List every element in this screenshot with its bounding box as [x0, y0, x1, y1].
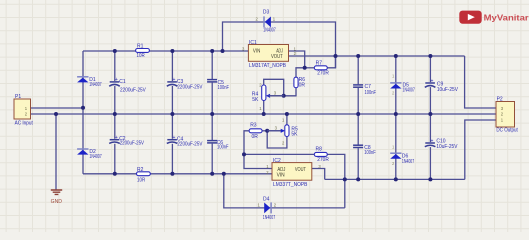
svg-text:R7: R7: [316, 60, 323, 66]
resistor R7: [314, 60, 329, 76]
svg-text:1N4007: 1N4007: [403, 88, 415, 94]
svg-text:GND: GND: [51, 199, 63, 205]
wire top rail: [83, 50, 248, 52]
wire R3 right link: [262, 130, 267, 132]
wire left drop from top rail: [82, 51, 84, 108]
wire R6 top link: [296, 68, 305, 77]
svg-text:1N4007: 1N4007: [263, 215, 276, 221]
wire R6 bottom to R4 wiper: [268, 88, 296, 96]
wire R5 wiper to R3: [267, 130, 284, 132]
wire positive riser to P2 pin3: [465, 56, 496, 108]
wire C7/C8 column: [357, 56, 359, 179]
svg-text:270R: 270R: [317, 157, 329, 163]
wire negative riser to P2 pin1: [465, 120, 496, 179]
diode D5: [390, 73, 415, 95]
resistor R6: [294, 77, 305, 89]
svg-text:100nF: 100nF: [217, 145, 228, 151]
svg-text:0R: 0R: [299, 83, 306, 89]
svg-text:270R: 270R: [317, 71, 329, 77]
svg-text:100nF: 100nF: [218, 85, 229, 91]
svg-text:D3: D3: [263, 10, 270, 16]
svg-text:VIN: VIN: [277, 172, 285, 178]
svg-text:10uF-25V: 10uF-25V: [437, 87, 459, 93]
wire bottom rail: [83, 173, 272, 175]
svg-text:1N4007: 1N4007: [402, 159, 414, 165]
svg-text:+: +: [431, 78, 434, 84]
svg-text:AC Input: AC Input: [15, 121, 34, 127]
svg-text:10R: 10R: [137, 178, 146, 184]
svg-text:+: +: [115, 135, 118, 141]
svg-text:P1: P1: [15, 94, 21, 100]
svg-text:R8: R8: [316, 147, 323, 153]
wire R5 top riser: [286, 114, 288, 125]
svg-text:10uF-25V: 10uF-25V: [436, 144, 458, 150]
svg-text:2200uF-25V: 2200uF-25V: [120, 88, 146, 94]
wire mid rail common: [31, 113, 497, 115]
svg-text:DC Output: DC Output: [496, 127, 518, 133]
potentiometer R4: [252, 83, 284, 112]
wire R7 left: [305, 67, 315, 69]
wire R4 top loop: [264, 79, 284, 96]
logo MyVanitar: [459, 11, 529, 24]
resistor R8: [314, 147, 329, 163]
svg-text:5K: 5K: [291, 132, 298, 138]
svg-text:1N4007: 1N4007: [263, 28, 276, 34]
wire R3 left down to ADJ node: [244, 131, 249, 155]
wire IC2 VOUT down: [312, 169, 325, 180]
resistor R3: [249, 123, 262, 140]
resistor R1: [136, 43, 150, 59]
wire C3/C4 column: [171, 51, 173, 174]
wire D5/D6 column: [395, 56, 397, 179]
wire D4 row: [224, 174, 345, 208]
svg-text:LM317AT_NOPB: LM317AT_NOPB: [249, 63, 287, 69]
svg-text:1N4007: 1N4007: [89, 82, 101, 88]
diode D4: [258, 196, 277, 221]
connector P2: [496, 97, 518, 134]
svg-text:2200uF-25V: 2200uF-25V: [177, 141, 203, 147]
wire P1 pin1 to node: [31, 107, 84, 109]
wire R7 right up: [327, 56, 335, 68]
svg-text:+: +: [173, 135, 176, 141]
wire positive output rail: [289, 55, 465, 57]
svg-text:0R: 0R: [252, 134, 259, 140]
svg-text:D4: D4: [263, 196, 270, 202]
regulator IC2: [266, 158, 321, 188]
svg-text:VOUT: VOUT: [271, 54, 283, 60]
capacitor C5: [206, 79, 229, 91]
capacitor C3: [166, 77, 203, 90]
svg-text:5K: 5K: [252, 97, 259, 103]
svg-text:MyVanitar: MyVanitar: [484, 13, 529, 23]
capacitor C9: [424, 78, 458, 93]
svg-text:VOUT: VOUT: [295, 167, 306, 173]
wire IC1 ADJ to node: [289, 51, 305, 68]
svg-text:10R: 10R: [137, 53, 146, 59]
wire C1/C2 column: [114, 51, 116, 174]
svg-text:P2: P2: [497, 97, 503, 103]
diode D2: [77, 149, 102, 160]
wire D2 column: [82, 108, 84, 174]
svg-text:100nF: 100nF: [364, 150, 375, 156]
svg-text:VIN: VIN: [253, 48, 261, 54]
diode D6: [390, 144, 414, 166]
svg-text:1N4007: 1N4007: [89, 154, 101, 160]
svg-text:IC1: IC1: [249, 40, 257, 46]
resistor R2: [137, 167, 151, 184]
wire ADJ node to IC2 pin1: [244, 154, 272, 168]
svg-text:+: +: [115, 77, 118, 83]
svg-text:IC2: IC2: [273, 158, 281, 164]
wire R5 bottom loop: [267, 131, 287, 148]
ground: [51, 190, 63, 205]
capacitor C10: [424, 138, 458, 150]
svg-text:LM337T_NOPB: LM337T_NOPB: [273, 182, 308, 188]
diode D1: [77, 77, 102, 88]
wire D3 loop: [223, 22, 336, 68]
svg-text:+: +: [431, 138, 434, 144]
wire GND drop: [55, 114, 57, 190]
diode D3: [256, 10, 276, 34]
wire R4 bottom stub: [263, 101, 265, 115]
svg-text:R3: R3: [250, 123, 257, 129]
capacitor C7: [352, 84, 376, 96]
wire C9/C10 column: [429, 56, 431, 179]
wire R8 row: [244, 153, 314, 155]
wire R8 right down through neg rail to D4: [327, 154, 345, 208]
connector P1: [14, 94, 33, 127]
wire negative output rail: [325, 178, 465, 180]
regulator IC1: [242, 40, 297, 69]
capacitor C2: [109, 135, 145, 146]
svg-text:R2: R2: [137, 167, 144, 173]
capacitor C8: [352, 145, 375, 157]
svg-text:+: +: [173, 77, 176, 83]
svg-text:C1: C1: [119, 79, 126, 85]
capacitor C1: [109, 77, 147, 93]
svg-text:2200uF-25V: 2200uF-25V: [177, 85, 203, 91]
capacitor C6: [206, 140, 228, 151]
potentiometer R5: [267, 118, 298, 146]
svg-text:2200uF-25V: 2200uF-25V: [120, 140, 145, 146]
wire C5/C6 column: [211, 51, 213, 174]
capacitor C4: [166, 135, 203, 147]
svg-text:100nF: 100nF: [365, 90, 376, 96]
svg-text:R1: R1: [137, 43, 144, 49]
